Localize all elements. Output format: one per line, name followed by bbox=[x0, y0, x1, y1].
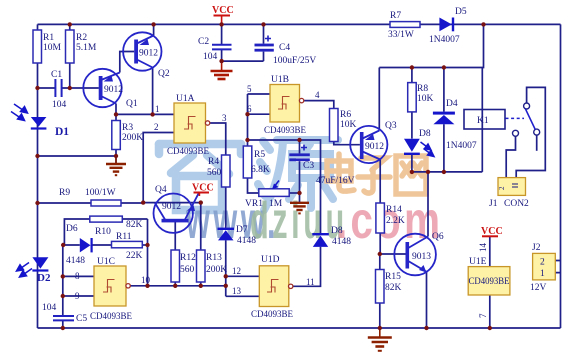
watermark char YUAN bbox=[258, 140, 338, 210]
svg-text:5.1M: 5.1M bbox=[76, 43, 97, 53]
svg-text:33/1W: 33/1W bbox=[388, 30, 414, 40]
capacitor C4 bbox=[255, 36, 317, 67]
svg-text:1N4007: 1N4007 bbox=[446, 141, 477, 151]
connector J1 bbox=[489, 178, 529, 209]
resistor R12 bbox=[171, 250, 196, 282]
svg-text:4: 4 bbox=[315, 90, 320, 100]
svg-text:C3: C3 bbox=[303, 161, 314, 171]
capacitor C1 bbox=[51, 70, 67, 110]
svg-text:1M: 1M bbox=[269, 199, 283, 209]
wire C2 branch bbox=[221, 24, 223, 61]
svg-text:R5: R5 bbox=[254, 150, 265, 160]
resistor R8 bbox=[408, 83, 434, 112]
wire U1B pin4 to R6 bbox=[304, 101, 334, 109]
wire R6 to Q3 base bbox=[334, 141, 360, 144]
svg-text:9012: 9012 bbox=[365, 142, 384, 152]
wire top VCC rail bbox=[38, 23, 561, 25]
svg-text:C2: C2 bbox=[198, 37, 209, 47]
svg-text:82K: 82K bbox=[126, 220, 143, 230]
svg-text:1: 1 bbox=[155, 104, 160, 114]
transistor Q3 bbox=[350, 121, 397, 163]
watermark char WANG bbox=[396, 156, 426, 194]
svg-text:560: 560 bbox=[207, 168, 222, 178]
svg-text:Q6: Q6 bbox=[432, 232, 444, 242]
capacitor C2 bbox=[198, 37, 232, 62]
wire R12 bottom bbox=[174, 282, 176, 286]
svg-text:D6: D6 bbox=[66, 224, 78, 234]
wire D4 bottom lead bbox=[443, 124, 445, 172]
wire R10 left lead bbox=[64, 219, 89, 245]
wire U1E pin7 bbox=[489, 295, 491, 328]
wire Q2 emitter to rail bbox=[153, 24, 155, 35]
svg-text:D4: D4 bbox=[446, 99, 458, 109]
svg-text:10K: 10K bbox=[340, 120, 357, 130]
ground at R3 bbox=[106, 156, 126, 175]
wire R8 top lead bbox=[411, 68, 413, 83]
svg-text:100uF/25V: 100uF/25V bbox=[273, 56, 316, 66]
wire U1A pin2 bbox=[143, 133, 174, 203]
resistor R2 bbox=[66, 30, 97, 63]
svg-text:U1C: U1C bbox=[97, 257, 115, 267]
svg-text:2: 2 bbox=[540, 258, 545, 268]
svg-text:R1: R1 bbox=[43, 33, 54, 43]
svg-text:VR1: VR1 bbox=[245, 199, 263, 209]
svg-text:CD4093BE: CD4093BE bbox=[167, 146, 210, 156]
wire switch common bbox=[516, 87, 545, 177]
resistor R14 bbox=[376, 203, 405, 233]
wire U1D pin13 bbox=[226, 295, 260, 297]
svg-text:4148: 4148 bbox=[237, 236, 256, 246]
wire Q3 emitter up bbox=[378, 68, 380, 131]
connector J2 bbox=[530, 243, 555, 293]
svg-text:Q2: Q2 bbox=[158, 69, 170, 79]
wire C2 C4 bottom link bbox=[222, 24, 264, 61]
svg-text:47uF/16V: 47uF/16V bbox=[316, 176, 355, 186]
power VCC top bbox=[212, 5, 234, 24]
diode D5 bbox=[429, 7, 467, 45]
wire R5 C3 D8 node bbox=[248, 140, 321, 233]
wire right rail bbox=[560, 24, 562, 328]
wire U1C pin8 bbox=[63, 275, 94, 277]
transistor Q2 bbox=[123, 32, 170, 79]
svg-text:Q3: Q3 bbox=[385, 121, 397, 131]
svg-text:22K: 22K bbox=[126, 251, 143, 261]
wire U1B input pins bbox=[248, 94, 271, 146]
wire U1C output node bbox=[130, 285, 226, 287]
wire node to R13 top bbox=[143, 202, 201, 204]
svg-text:CD4093BE: CD4093BE bbox=[251, 309, 294, 319]
wire J2 stubs bbox=[555, 261, 560, 273]
watermark char DIAN bbox=[327, 154, 354, 191]
svg-text:U1A: U1A bbox=[176, 94, 195, 104]
wire Q2 collector to pin1 bbox=[152, 68, 154, 115]
svg-text:Q1: Q1 bbox=[126, 99, 138, 109]
svg-text:10: 10 bbox=[141, 275, 151, 285]
svg-text:J2: J2 bbox=[532, 243, 541, 253]
svg-text:D1: D1 bbox=[55, 126, 69, 138]
resistor R3 bbox=[112, 121, 143, 150]
svg-text:CD4093BE: CD4093BE bbox=[469, 276, 510, 286]
wire relay drive node bbox=[412, 171, 482, 173]
svg-text:D7: D7 bbox=[236, 225, 248, 235]
transistor Q6 bbox=[394, 232, 444, 275]
resistor R4 bbox=[207, 155, 230, 187]
resistor R9 bbox=[59, 188, 121, 206]
wire C5 to ground rail bbox=[62, 321, 64, 328]
svg-text:1: 1 bbox=[540, 269, 545, 279]
svg-text:9: 9 bbox=[75, 291, 80, 301]
svg-text:7: 7 bbox=[478, 313, 488, 318]
wire R14 to Q6 base bbox=[380, 233, 406, 254]
svg-text:9012: 9012 bbox=[139, 49, 158, 59]
wire R11 to feedback column bbox=[142, 244, 147, 246]
ground at VR1 bbox=[290, 203, 309, 214]
transistor Q4 bbox=[154, 185, 200, 233]
potentiometer VR1 bbox=[245, 181, 289, 210]
wire Q6 emitter to rail bbox=[426, 272, 428, 328]
wire relay supply rail bbox=[379, 24, 483, 67]
wire C3 bottom to ground bbox=[299, 161, 301, 202]
wire R9 right to node bbox=[121, 202, 143, 204]
svg-text:R4: R4 bbox=[208, 157, 219, 167]
svg-text:R14: R14 bbox=[386, 205, 402, 215]
wire R4 to D7 bbox=[225, 187, 227, 228]
svg-text:200K: 200K bbox=[206, 265, 227, 275]
svg-text:R9: R9 bbox=[59, 188, 70, 198]
svg-text:82K: 82K bbox=[385, 283, 402, 293]
wire D8 to U1D output bbox=[293, 247, 321, 286]
svg-text:J1: J1 bbox=[489, 199, 498, 209]
resistor R6 bbox=[330, 109, 357, 142]
wire R13 bottom bbox=[200, 282, 202, 286]
svg-text:4148: 4148 bbox=[332, 237, 351, 247]
svg-text:4148: 4148 bbox=[66, 256, 85, 266]
svg-text:12: 12 bbox=[232, 266, 241, 276]
capacitor C3 bbox=[289, 145, 354, 187]
wire Q4 base to R12 bbox=[174, 222, 176, 250]
svg-text:CD4093BE: CD4093BE bbox=[264, 125, 307, 135]
svg-text:Q4: Q4 bbox=[155, 185, 167, 195]
resistor R11 bbox=[112, 232, 143, 261]
diode D6 bbox=[66, 224, 93, 266]
svg-text:10M: 10M bbox=[43, 43, 62, 53]
wire Q1 emitter to Q2 base bbox=[120, 52, 134, 73]
svg-text:R6: R6 bbox=[340, 110, 351, 120]
svg-text:104: 104 bbox=[203, 52, 218, 62]
IC power U1E bbox=[468, 243, 510, 319]
svg-text:U1B: U1B bbox=[271, 75, 289, 85]
svg-text:3: 3 bbox=[222, 113, 227, 123]
wire R9 left lead bbox=[38, 202, 92, 204]
photodiode D1 bbox=[11, 104, 69, 138]
svg-text:U1E: U1E bbox=[469, 257, 487, 267]
wire D1 bottom to R3 ground node bbox=[38, 150, 117, 164]
wire bottom ground rail bbox=[38, 327, 561, 329]
svg-text:5: 5 bbox=[247, 84, 252, 94]
svg-text:D2: D2 bbox=[37, 272, 51, 284]
wire D4 top lead bbox=[443, 68, 445, 112]
svg-text:U1D: U1D bbox=[261, 255, 280, 265]
transistor Q1 bbox=[83, 69, 138, 109]
svg-text:100/1W: 100/1W bbox=[85, 188, 116, 198]
diode D4 bbox=[433, 99, 477, 151]
wire C3 top lead bbox=[299, 140, 301, 153]
svg-text:14: 14 bbox=[478, 243, 488, 253]
wire left rail bbox=[37, 24, 39, 328]
capacitor C5 bbox=[42, 303, 87, 324]
svg-text:8: 8 bbox=[75, 271, 80, 281]
wire switch NO contact bbox=[506, 137, 515, 178]
watermark char ZI bbox=[358, 158, 390, 193]
wire R10 right lead bbox=[122, 218, 147, 220]
svg-text:10K: 10K bbox=[417, 94, 434, 104]
wire R8 to LED D8 bbox=[411, 112, 413, 139]
svg-text:R7: R7 bbox=[390, 11, 401, 21]
svg-text:1N4007: 1N4007 bbox=[429, 35, 460, 45]
svg-text:R8: R8 bbox=[417, 84, 428, 94]
svg-text:C5: C5 bbox=[76, 314, 87, 324]
svg-text:R11: R11 bbox=[116, 232, 132, 242]
IC gate U1B bbox=[247, 75, 320, 135]
svg-text:D8: D8 bbox=[331, 226, 343, 236]
diode D7 bbox=[218, 225, 257, 246]
svg-text:6.8K: 6.8K bbox=[251, 165, 270, 175]
svg-text:104: 104 bbox=[52, 100, 67, 110]
wire D6 to R11 bbox=[92, 244, 111, 246]
svg-text:C4: C4 bbox=[279, 43, 290, 53]
svg-text:9012: 9012 bbox=[162, 202, 181, 212]
svg-text:R3: R3 bbox=[122, 123, 133, 133]
ground at bottom rail bbox=[368, 328, 392, 351]
svg-text:D5: D5 bbox=[455, 7, 467, 17]
svg-text:R15: R15 bbox=[385, 272, 401, 282]
IC gate U1D bbox=[232, 255, 315, 319]
diode D8 (4148) bbox=[312, 226, 351, 247]
wire Q6 collector up bbox=[427, 172, 429, 237]
wire U1C input column bbox=[62, 245, 64, 316]
wire U1D pin12 bbox=[226, 275, 260, 277]
svg-text:R12: R12 bbox=[180, 253, 196, 263]
wire R13 top branch bbox=[200, 203, 202, 250]
svg-text:CD4093BE: CD4093BE bbox=[90, 311, 133, 321]
IC gate U1A bbox=[154, 94, 227, 156]
svg-text:2: 2 bbox=[154, 122, 159, 132]
wire D7 to U1D inputs bbox=[225, 240, 227, 296]
svg-text:2.2K: 2.2K bbox=[386, 216, 405, 226]
wire switch NC stub bbox=[536, 135, 538, 151]
svg-text:12V: 12V bbox=[530, 283, 547, 293]
emitting diode D2 bbox=[17, 257, 51, 284]
svg-text:200K: 200K bbox=[122, 133, 143, 143]
svg-text:13: 13 bbox=[232, 286, 242, 296]
resistor R5 bbox=[243, 146, 270, 178]
IC gate U1C bbox=[75, 257, 151, 321]
resistor R13 bbox=[197, 250, 228, 282]
wire Q3 collector to R14 bbox=[379, 160, 381, 204]
wire feedback column bbox=[147, 219, 149, 286]
svg-text:2: 2 bbox=[498, 186, 506, 190]
svg-text:R13: R13 bbox=[206, 253, 222, 263]
resistor R7 bbox=[388, 11, 420, 40]
power VCC U1E bbox=[481, 226, 503, 237]
wire R15 leads bbox=[379, 254, 381, 328]
wire VR1 to C3 column bbox=[289, 192, 299, 194]
resistor R1 bbox=[33, 30, 62, 63]
svg-text:D8: D8 bbox=[419, 129, 431, 139]
svg-text:11: 11 bbox=[306, 277, 315, 287]
wire R5 to VR1 bbox=[248, 178, 259, 193]
svg-text:CON2: CON2 bbox=[504, 199, 529, 209]
resistor R10 bbox=[90, 216, 143, 237]
wire D6 anode lead bbox=[63, 244, 80, 246]
svg-text:560: 560 bbox=[180, 265, 195, 275]
svg-text:VCC: VCC bbox=[212, 5, 234, 16]
wire U1A pin3 to R4 bbox=[210, 123, 226, 155]
wire C1 node bbox=[38, 87, 56, 89]
watermark char RONG bbox=[159, 129, 241, 210]
wire Q1 collector node to U1A pin1 bbox=[116, 104, 174, 121]
ground at C2 bbox=[211, 61, 233, 79]
power VCC Q4 bbox=[192, 183, 214, 197]
svg-text:R2: R2 bbox=[76, 33, 87, 43]
wire K1 bottom pin bbox=[481, 128, 483, 172]
svg-text:R10: R10 bbox=[95, 227, 111, 237]
svg-text:C1: C1 bbox=[51, 70, 62, 80]
svg-text:9013: 9013 bbox=[412, 252, 431, 262]
wire R2 branch bbox=[69, 24, 71, 88]
relay switch contacts bbox=[513, 103, 540, 136]
LED D8 bbox=[404, 129, 434, 157]
svg-text:K1: K1 bbox=[477, 116, 489, 126]
svg-text:104: 104 bbox=[42, 303, 57, 313]
wire U1C pin9 bbox=[63, 295, 94, 297]
svg-text:9012: 9012 bbox=[104, 85, 123, 95]
wire LED D8 cathode down bbox=[411, 155, 413, 172]
wire K1 top pin bbox=[481, 68, 483, 111]
junction dots (net connections) bbox=[35, 22, 492, 330]
resistor R15 bbox=[376, 270, 402, 304]
relay K1 bbox=[464, 110, 524, 130]
wire U1E pin14 bbox=[489, 237, 491, 267]
